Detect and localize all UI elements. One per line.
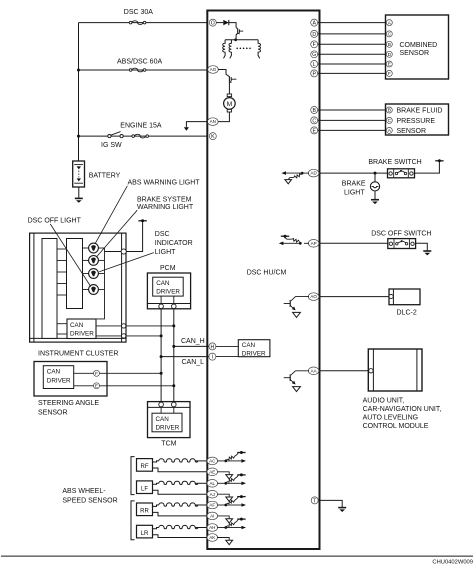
svg-text:LF: LF bbox=[141, 487, 148, 493]
ground (Q4) bbox=[293, 387, 301, 392]
svg-text:C: C bbox=[388, 118, 392, 124]
wires cluster CAN driver to pins bbox=[96, 326, 121, 336]
svg-text:CONTROL MODULE: CONTROL MODULE bbox=[363, 423, 429, 430]
AP internal pull-up bbox=[279, 235, 309, 245]
svg-text:M: M bbox=[227, 101, 233, 108]
wire DSC E to brake fluid sensor A bbox=[318, 129, 386, 131]
diode D1 bbox=[223, 20, 229, 25]
AL internal signal arrow bbox=[226, 482, 246, 486]
wire collector tap to pin bbox=[105, 251, 122, 253]
TCM internal stubs bbox=[161, 407, 174, 413]
svg-text:AG: AG bbox=[210, 67, 217, 72]
svg-text:I: I bbox=[212, 354, 213, 360]
solenoid valve coil 2 bbox=[229, 40, 231, 59]
wire CAN_L to I bbox=[160, 355, 209, 358]
svg-text:ENGINE 15A: ENGINE 15A bbox=[120, 122, 162, 129]
svg-text:AH: AH bbox=[209, 525, 215, 530]
wire F to CAN bus bbox=[100, 372, 163, 375]
wire brake system warning light to collector bbox=[98, 259, 104, 261]
label DSC OFF SWITCH bbox=[371, 230, 431, 237]
svg-text:STEERING ANGLE: STEERING ANGLE bbox=[38, 400, 99, 407]
steering angle sensor box bbox=[34, 362, 107, 397]
svg-text:LIGHT: LIGHT bbox=[155, 249, 176, 256]
svg-text:AUDIO UNIT,: AUDIO UNIT, bbox=[363, 398, 405, 405]
svg-text:TCM: TCM bbox=[161, 441, 176, 448]
svg-text:C: C bbox=[312, 118, 316, 124]
label DLC-2 bbox=[397, 309, 417, 316]
brake switch SW1 bbox=[388, 169, 415, 178]
label BRAKE SYSTEM WARNING LIGHT bbox=[137, 196, 194, 211]
brake fluid pressure sensor box bbox=[386, 104, 449, 135]
AL pull-up resistor bbox=[226, 473, 246, 483]
svg-text:DRIVER: DRIVER bbox=[156, 425, 180, 432]
wire motor to AN bbox=[218, 112, 230, 122]
svg-text:H: H bbox=[211, 344, 215, 350]
DSC HU/CM module box bbox=[207, 11, 319, 550]
pin A (brake fluid sensor) bbox=[386, 127, 392, 134]
pin F (combined sensor) bbox=[386, 70, 392, 77]
pin D (combined sensor) bbox=[386, 51, 392, 58]
svg-text:ABS/DSC 60A: ABS/DSC 60A bbox=[117, 59, 162, 66]
svg-text:AN: AN bbox=[210, 119, 216, 124]
callout brake system warning light bbox=[97, 210, 138, 257]
audio unit box bbox=[368, 349, 422, 391]
svg-text:CAN: CAN bbox=[242, 342, 256, 349]
power tap to cluster bbox=[126, 219, 147, 251]
fuse ENGINE 15A bbox=[120, 122, 162, 138]
AH internal signal arrow bbox=[226, 526, 246, 530]
wire DSC L to combined sensor E bbox=[318, 63, 386, 65]
svg-text:DSC OFF LIGHT: DSC OFF LIGHT bbox=[28, 217, 82, 224]
CAN bus line 2 bbox=[173, 309, 175, 403]
wire T to ground bbox=[318, 500, 342, 507]
bulb DSC OFF light bbox=[89, 285, 99, 295]
power tap (brake switch) bbox=[435, 159, 443, 162]
AF pull-up resistor bbox=[226, 495, 246, 505]
wire brake switch to power bbox=[415, 161, 440, 173]
instrument cluster box bbox=[30, 233, 126, 342]
fuse DSC 30A bbox=[124, 9, 154, 24]
pin (DLC-2) bbox=[389, 294, 393, 298]
CAN driver (PCM) bbox=[153, 277, 184, 296]
wire LR signal (coil) bbox=[153, 525, 207, 528]
svg-text:BATTERY: BATTERY bbox=[89, 173, 121, 180]
pin C (combined sensor) bbox=[386, 31, 392, 38]
svg-text:AL: AL bbox=[210, 481, 216, 486]
svg-text:AJ: AJ bbox=[210, 492, 215, 497]
wire DSC OFF light to collector bbox=[98, 289, 104, 291]
svg-text:BRAKE SYSTEM: BRAKE SYSTEM bbox=[137, 196, 192, 203]
wire cluster CANL to bus bbox=[126, 334, 163, 337]
svg-text:K: K bbox=[211, 134, 215, 140]
svg-text:RF: RF bbox=[141, 464, 149, 470]
wire DSC D to combined sensor C bbox=[318, 33, 386, 35]
svg-text:D: D bbox=[388, 52, 392, 58]
svg-text:AO: AO bbox=[310, 294, 317, 299]
wire RF return bbox=[153, 468, 207, 472]
terminal AH bbox=[207, 524, 218, 532]
wire DSC indicator light to collector bbox=[98, 273, 104, 275]
PCM box bbox=[147, 273, 190, 309]
wheel sensor LF box bbox=[137, 481, 153, 494]
AC pull-up resistor bbox=[226, 451, 246, 461]
wire AP to DSC OFF switch bbox=[318, 242, 388, 244]
label DSC INDICATOR LIGHT bbox=[155, 231, 193, 256]
svg-text:BRAKE SWITCH: BRAKE SWITCH bbox=[368, 159, 421, 166]
TCM pin 2 bbox=[172, 402, 177, 407]
svg-text:ABS WARNING LIGHT: ABS WARNING LIGHT bbox=[128, 179, 201, 186]
svg-text:RR: RR bbox=[140, 509, 149, 515]
DSC OFF switch SW2 bbox=[388, 239, 416, 249]
terminal AA bbox=[308, 367, 319, 375]
wire to ABS warning light bbox=[83, 247, 89, 249]
solenoid valve coil 3 bbox=[258, 40, 260, 59]
svg-text:SPEED SENSOR: SPEED SENSOR bbox=[62, 497, 117, 504]
transistor Q1 bbox=[236, 27, 243, 34]
terminal O bbox=[209, 19, 216, 26]
terminal AK bbox=[207, 534, 218, 542]
wheel sensor RR box bbox=[137, 503, 153, 516]
pin C (brake fluid sensor) bbox=[386, 117, 392, 124]
PCM pin 1 bbox=[159, 304, 164, 309]
svg-text:INDICATOR: INDICATOR bbox=[155, 240, 193, 247]
wire AA to audio unit bbox=[318, 370, 369, 372]
cluster circuit block 1 bbox=[42, 239, 57, 339]
terminal AD bbox=[308, 169, 319, 177]
terminal AE bbox=[207, 468, 218, 476]
CAN bus line 1 bbox=[160, 309, 162, 403]
AK internal ground bbox=[217, 538, 232, 545]
svg-text:IG SW: IG SW bbox=[101, 142, 122, 149]
terminal AP bbox=[308, 240, 319, 248]
callout DSC OFF light bbox=[50, 224, 91, 287]
switch IG SW bbox=[101, 132, 123, 150]
wheel sensor RF box bbox=[137, 459, 153, 472]
wire to DSC OFF light bbox=[83, 289, 89, 291]
svg-text:LIGHT: LIGHT bbox=[344, 189, 365, 196]
callout DSC indicator light bbox=[99, 253, 154, 272]
AE internal ground bbox=[217, 472, 232, 479]
svg-text:O: O bbox=[211, 20, 215, 26]
combined sensor box bbox=[386, 15, 449, 79]
svg-text:F: F bbox=[388, 71, 391, 77]
callout ABS warning light bbox=[95, 186, 127, 244]
svg-text:CAN_H: CAN_H bbox=[181, 338, 205, 345]
wire AD to brake switch bbox=[318, 172, 388, 174]
wire valve rail bbox=[225, 39, 258, 41]
TCM pin 1 bbox=[159, 402, 164, 407]
svg-text:C: C bbox=[388, 32, 392, 38]
AF internal junction bbox=[217, 504, 227, 507]
wire DSC P to combined sensor F bbox=[318, 72, 386, 74]
dotted continuation (more valves) bbox=[236, 48, 250, 50]
bracket (front sensors) bbox=[131, 457, 135, 495]
terminal AG bbox=[208, 66, 219, 74]
wire DSC G to combined sensor D bbox=[318, 53, 386, 55]
label DSC OFF LIGHT bbox=[28, 217, 82, 224]
PCM internal stubs bbox=[161, 296, 174, 304]
svg-text:BRAKE: BRAKE bbox=[342, 180, 366, 187]
svg-text:PCM: PCM bbox=[160, 265, 176, 272]
battery B1 bbox=[73, 161, 121, 187]
pin F (steering) bbox=[94, 370, 100, 377]
svg-text:DSC: DSC bbox=[155, 231, 170, 238]
wire DSC B to brake fluid sensor B bbox=[318, 109, 386, 111]
DLC-2 box bbox=[389, 289, 420, 305]
terminal B (DSC) bbox=[311, 107, 318, 114]
PCM pin 2 bbox=[172, 304, 177, 309]
transistor Q4 (AA) bbox=[284, 371, 309, 385]
svg-text:E: E bbox=[312, 128, 316, 134]
AC internal junction bbox=[217, 460, 227, 463]
wheel sensor LR box bbox=[137, 525, 153, 538]
terminal A (DSC) bbox=[311, 19, 318, 26]
wire Q1 to valve rail bbox=[235, 35, 237, 40]
svg-text:DSC HU/CM: DSC HU/CM bbox=[247, 270, 287, 277]
svg-text:BRAKE FLUID: BRAKE FLUID bbox=[397, 108, 443, 115]
pin E (steering) bbox=[94, 383, 100, 390]
terminal I bbox=[209, 353, 216, 360]
pin (audio unit) bbox=[369, 369, 373, 373]
transistor Q3 (AO) bbox=[284, 297, 309, 311]
brake light L1 bbox=[370, 182, 379, 191]
svg-text:WARNING LIGHT: WARNING LIGHT bbox=[137, 204, 194, 211]
arrow (AN continues) bbox=[184, 127, 189, 131]
AL internal junction bbox=[217, 482, 227, 485]
wire DSC OFF switch to ground bbox=[416, 243, 428, 250]
wire to DSC indicator light bbox=[83, 273, 89, 275]
svg-text:CAN: CAN bbox=[47, 369, 61, 376]
svg-text:F: F bbox=[95, 371, 98, 377]
svg-text:AUTO LEVELING: AUTO LEVELING bbox=[363, 414, 419, 421]
wires to F/E pins bbox=[74, 373, 94, 386]
svg-text:A: A bbox=[312, 20, 316, 26]
svg-text:CAN: CAN bbox=[156, 416, 170, 423]
wire LR return bbox=[153, 535, 207, 538]
CAN driver (steering) bbox=[43, 366, 73, 389]
cluster circuit block 2 bbox=[67, 239, 83, 309]
svg-text:E: E bbox=[95, 384, 98, 390]
AF internal signal arrow bbox=[226, 503, 246, 507]
ground (T) bbox=[338, 508, 346, 512]
svg-text:CAN_L: CAN_L bbox=[182, 359, 205, 366]
ground (Q3) bbox=[293, 312, 301, 317]
CAN driver (cluster) bbox=[67, 319, 96, 339]
svg-text:DSC OFF SWITCH: DSC OFF SWITCH bbox=[371, 230, 431, 237]
svg-text:DRIVER: DRIVER bbox=[242, 350, 266, 357]
wire AO to DLC-2 bbox=[318, 296, 389, 298]
cluster pin (illum power) bbox=[121, 249, 126, 254]
ground (battery) bbox=[75, 198, 83, 202]
wire battery to ground bbox=[78, 187, 80, 198]
AH pull-up resistor bbox=[226, 518, 246, 528]
terminal L (DSC) bbox=[311, 61, 318, 68]
svg-text:AE: AE bbox=[209, 469, 215, 474]
terminal H bbox=[209, 343, 216, 350]
ground (brake light) bbox=[371, 200, 379, 204]
label DSC HU/CM bbox=[247, 270, 287, 277]
label STEERING ANGLE SENSOR bbox=[38, 400, 99, 417]
svg-text:DSC 30A: DSC 30A bbox=[124, 9, 154, 16]
bulb brake system warning light bbox=[89, 256, 99, 266]
svg-text:AA: AA bbox=[311, 368, 317, 373]
terminal AL bbox=[207, 480, 218, 488]
label BRAKE LIGHT bbox=[342, 180, 366, 196]
wire LF signal (coil) bbox=[153, 481, 207, 484]
wire LF return bbox=[153, 490, 207, 494]
terminal D (DSC) bbox=[311, 30, 318, 37]
label INSTRUMENT CLUSTER bbox=[38, 350, 118, 357]
wires H/I to CAN driver bbox=[216, 346, 238, 356]
svg-text:AC: AC bbox=[209, 459, 216, 464]
wire RR signal (coil) bbox=[153, 503, 207, 506]
wire diode to Q1 bbox=[229, 23, 236, 28]
wire DSC C to brake fluid sensor C bbox=[318, 119, 386, 121]
wire O to diode bbox=[216, 22, 223, 24]
wire ABS warning light to collector bbox=[98, 247, 104, 249]
terminal AI bbox=[207, 512, 218, 520]
terminal AC bbox=[207, 457, 218, 465]
svg-text:ABS WHEEL-: ABS WHEEL- bbox=[62, 488, 106, 495]
svg-text:SENSOR: SENSOR bbox=[400, 50, 430, 57]
wire E to CAN bus bbox=[100, 384, 176, 387]
terminal C (DSC) bbox=[311, 117, 318, 124]
bracket (rear sensors) bbox=[131, 501, 135, 540]
pump motor M1 bbox=[224, 94, 236, 112]
svg-text:CHU0402W009: CHU0402W009 bbox=[432, 560, 473, 566]
AC internal signal arrow bbox=[226, 459, 246, 463]
wire brake light to ground bbox=[374, 191, 376, 199]
svg-text:DRIVER: DRIVER bbox=[47, 377, 71, 384]
wire CAN_H to H bbox=[172, 345, 209, 348]
svg-text:B: B bbox=[312, 108, 316, 114]
svg-text:L: L bbox=[313, 62, 316, 68]
label ABS WARNING LIGHT bbox=[128, 179, 201, 186]
terminal E (DSC) bbox=[311, 127, 318, 134]
svg-text:F: F bbox=[313, 42, 316, 48]
svg-text:LR: LR bbox=[141, 531, 149, 537]
pin B (brake fluid sensor) bbox=[386, 107, 392, 114]
wire AN branch out bbox=[186, 122, 208, 128]
svg-text:INSTRUMENT CLUSTER: INSTRUMENT CLUSTER bbox=[38, 350, 118, 357]
svg-text:B: B bbox=[388, 108, 391, 114]
label AUDIO UNIT... bbox=[363, 398, 442, 430]
cluster bulb collector line bbox=[96, 248, 105, 319]
terminal G (DSC) bbox=[311, 51, 318, 58]
wire RR return bbox=[153, 512, 207, 516]
wire ABS/DSC 60A feed bbox=[79, 69, 207, 71]
bulb ABS warning light bbox=[89, 243, 99, 253]
terminal P (DSC) bbox=[311, 70, 318, 77]
svg-text:AK: AK bbox=[209, 535, 215, 540]
wire DSC F to combined sensor B bbox=[318, 43, 386, 45]
terminal F (DSC) bbox=[311, 41, 318, 48]
pin A (combined sensor) bbox=[386, 20, 392, 27]
AJ internal ground bbox=[217, 494, 232, 501]
junction on bus at ENGINE 15A bbox=[77, 135, 80, 138]
svg-text:COMBINED: COMBINED bbox=[400, 42, 438, 49]
wire to brake light bbox=[374, 173, 376, 182]
label BRAKE SWITCH bbox=[368, 159, 421, 166]
fuse ABS/DSC 60A bbox=[117, 59, 162, 72]
pin E (combined sensor) bbox=[386, 61, 392, 68]
svg-text:SENSOR: SENSOR bbox=[38, 410, 68, 417]
svg-text:DRIVER: DRIVER bbox=[156, 289, 180, 296]
wire to brake system warning light bbox=[83, 259, 89, 261]
terminal T bbox=[311, 497, 318, 504]
svg-text:AF: AF bbox=[209, 503, 215, 508]
wire RF signal (coil) bbox=[153, 459, 207, 462]
wire ENGINE 15A feed bbox=[79, 135, 207, 137]
AH internal junction bbox=[217, 526, 227, 529]
wires cluster CAN driver left bbox=[57, 324, 67, 334]
wire DSC 30A feed bbox=[79, 22, 207, 24]
CAN driver (DSC) bbox=[238, 340, 270, 358]
label TCM bbox=[161, 441, 176, 448]
wire DSC A to combined sensor A bbox=[318, 22, 386, 24]
junction brake light bbox=[374, 172, 377, 175]
terminal AJ bbox=[207, 490, 218, 498]
label COMBINED SENSOR bbox=[400, 42, 438, 57]
CAN driver (TCM) bbox=[152, 413, 182, 432]
TCM box bbox=[148, 402, 191, 438]
label PCM bbox=[160, 265, 176, 272]
AD internal pull-down bbox=[281, 171, 309, 184]
label CAN_H bbox=[181, 338, 205, 345]
terminal AF bbox=[207, 501, 218, 509]
wire cluster CANH to bus bbox=[126, 324, 175, 327]
bulb DSC indicator light bbox=[89, 269, 99, 279]
svg-text:PRESSURE: PRESSURE bbox=[397, 118, 436, 125]
figure border bottom bbox=[1, 555, 473, 557]
terminal K bbox=[209, 133, 216, 140]
svg-text:CAR-NAVIGATION UNIT,: CAR-NAVIGATION UNIT, bbox=[363, 406, 442, 413]
cluster pin (CAN H) bbox=[122, 324, 126, 328]
svg-text:AD: AD bbox=[310, 171, 317, 176]
svg-text:SENSOR: SENSOR bbox=[397, 128, 427, 135]
junction valve rail bbox=[234, 38, 237, 41]
svg-text:CAN: CAN bbox=[70, 322, 84, 329]
transistor Q2 bbox=[229, 76, 236, 83]
label CAN_L bbox=[182, 359, 205, 366]
wire Q2 to motor bbox=[228, 82, 230, 94]
svg-text:AI: AI bbox=[210, 514, 214, 519]
svg-text:P: P bbox=[312, 71, 316, 77]
ground (DSC OFF switch) bbox=[423, 251, 431, 255]
svg-text:DLC-2: DLC-2 bbox=[397, 309, 417, 316]
junction on bus at ABS/DSC 60A bbox=[77, 69, 80, 72]
label BRAKE FLUID PRESSURE SENSOR bbox=[397, 108, 443, 135]
wire battery bus bbox=[78, 23, 80, 161]
svg-text:E: E bbox=[388, 62, 391, 68]
terminal AN bbox=[208, 118, 219, 126]
svg-text:AP: AP bbox=[311, 241, 317, 246]
label ABS WHEEL-SPEED SENSOR bbox=[62, 488, 117, 504]
AI internal ground bbox=[217, 516, 232, 523]
pin B (combined sensor) bbox=[386, 41, 392, 48]
terminal AO bbox=[308, 293, 319, 301]
solenoid valve coil 1 bbox=[223, 40, 225, 59]
wire AG to Q2 bbox=[218, 70, 229, 77]
figure id CHU0402W009 bbox=[432, 560, 473, 566]
svg-text:DRIVER: DRIVER bbox=[70, 330, 94, 337]
svg-text:CAN: CAN bbox=[156, 280, 170, 287]
cluster block interconnects bbox=[57, 249, 67, 295]
svg-text:G: G bbox=[312, 52, 316, 58]
svg-text:B: B bbox=[388, 42, 391, 48]
svg-text:D: D bbox=[312, 32, 316, 38]
cluster pin (CAN L) bbox=[122, 334, 126, 338]
